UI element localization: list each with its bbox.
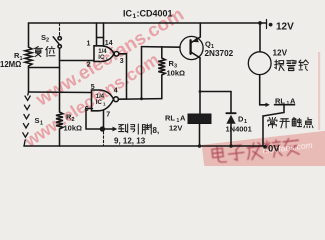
- svg-text:IC: IC: [98, 55, 105, 61]
- wire contact to 0V: [262, 116, 264, 146]
- wire collector to diode: [200, 91, 231, 93]
- wire pin 14: [103, 23, 105, 46]
- resistor R2: [56, 92, 63, 146]
- switch S1 sensor loop: [23, 92, 30, 146]
- watermark diagonal elecfans upper: [32, 4, 188, 111]
- svg-text:A: A: [180, 114, 186, 123]
- svg-text:2N3702: 2N3702: [205, 49, 234, 58]
- svg-text:1/4: 1/4: [96, 94, 105, 100]
- wire trigger node mid: [29, 91, 92, 94]
- svg-text:RL: RL: [165, 114, 175, 123]
- watermark bottom band: [202, 130, 325, 185]
- wire pin 6: [86, 109, 101, 130]
- wire arrow to pins 8 9 12 13: [104, 128, 112, 130]
- terminal +12V: [269, 23, 273, 27]
- watermark diagonal elecfans lower: [20, 49, 163, 151]
- wire pin 4 output: [118, 98, 161, 101]
- wire R1 to S2 node: [29, 67, 60, 69]
- svg-text:1/4: 1/4: [98, 49, 107, 55]
- svg-text:4: 4: [114, 87, 118, 94]
- resistor R3: [158, 47, 165, 99]
- svg-text:2: 2: [87, 61, 91, 68]
- svg-text:1: 1: [40, 121, 43, 127]
- wire pin 7 to 0V dashed: [103, 132, 105, 146]
- svg-text:12V: 12V: [169, 124, 182, 133]
- terminal +12V tick: [266, 20, 268, 29]
- svg-text:14: 14: [105, 40, 113, 47]
- svg-text:A: A: [290, 97, 296, 106]
- wire feedback from base node: [141, 47, 143, 99]
- switch S2 reset: [59, 23, 61, 35]
- label reset: [34, 47, 42, 57]
- relay coil RL1: [188, 114, 211, 124]
- svg-text:7: 7: [106, 112, 110, 119]
- diode D1: [230, 92, 232, 114]
- svg-text:10kΩ: 10kΩ: [64, 124, 83, 133]
- svg-text::CD4001: :CD4001: [137, 9, 173, 19]
- svg-text:12MΩ: 12MΩ: [0, 60, 21, 69]
- svg-text:8,: 8,: [153, 126, 160, 135]
- svg-text:1N4001: 1N4001: [226, 125, 252, 134]
- wire to pin 2: [60, 60, 95, 62]
- relay contact RL1A: [260, 103, 266, 105]
- wire bell top: [259, 23, 261, 52]
- wire +12V top rail: [29, 22, 267, 24]
- alarm bell: [248, 52, 271, 75]
- wire pin 3 output: [119, 54, 127, 99]
- svg-text:6: 6: [85, 106, 89, 113]
- svg-text:0V: 0V: [268, 144, 280, 155]
- svg-text:10kΩ: 10kΩ: [167, 69, 186, 78]
- svg-text:IC: IC: [96, 100, 103, 106]
- svg-text:RL: RL: [275, 97, 285, 106]
- wire bell bottom: [259, 75, 261, 103]
- label normally open contact: [268, 118, 277, 128]
- node bell junction: [258, 21, 262, 25]
- transistor Q1: [180, 36, 203, 59]
- wire collector down: [199, 58, 201, 114]
- svg-text:2: 2: [72, 117, 75, 123]
- wire R1 bottom: [28, 66, 30, 92]
- svg-text:12V: 12V: [276, 22, 294, 33]
- wire 0V bottom rail: [24, 145, 263, 147]
- svg-text:1: 1: [87, 40, 91, 47]
- wire pin 1: [97, 23, 104, 46]
- terminal 0V: [263, 145, 267, 149]
- svg-text:2: 2: [46, 38, 49, 44]
- wire emitter to rail: [199, 23, 201, 37]
- nor gate U1b: [92, 90, 114, 111]
- wire base node horizontal: [142, 46, 181, 49]
- nor gate U1a: [94, 46, 114, 62]
- label to pins 8 9 12 13: [119, 124, 128, 132]
- svg-text:IC: IC: [123, 9, 133, 19]
- svg-text:12V: 12V: [273, 49, 288, 58]
- wire pin 7: [103, 111, 105, 128]
- svg-text:5: 5: [91, 84, 95, 91]
- wire R1 top: [28, 23, 30, 47]
- svg-text:9, 12, 13: 9, 12, 13: [114, 137, 146, 146]
- svg-text:S: S: [35, 116, 40, 125]
- wire S2 bottom: [59, 48, 61, 92]
- svg-text:3: 3: [120, 58, 124, 65]
- wire relay to rail: [199, 124, 201, 147]
- resistor R1: [25, 47, 32, 66]
- node pins 7/6 junction: [101, 127, 105, 131]
- watermark right streak: [318, 52, 320, 130]
